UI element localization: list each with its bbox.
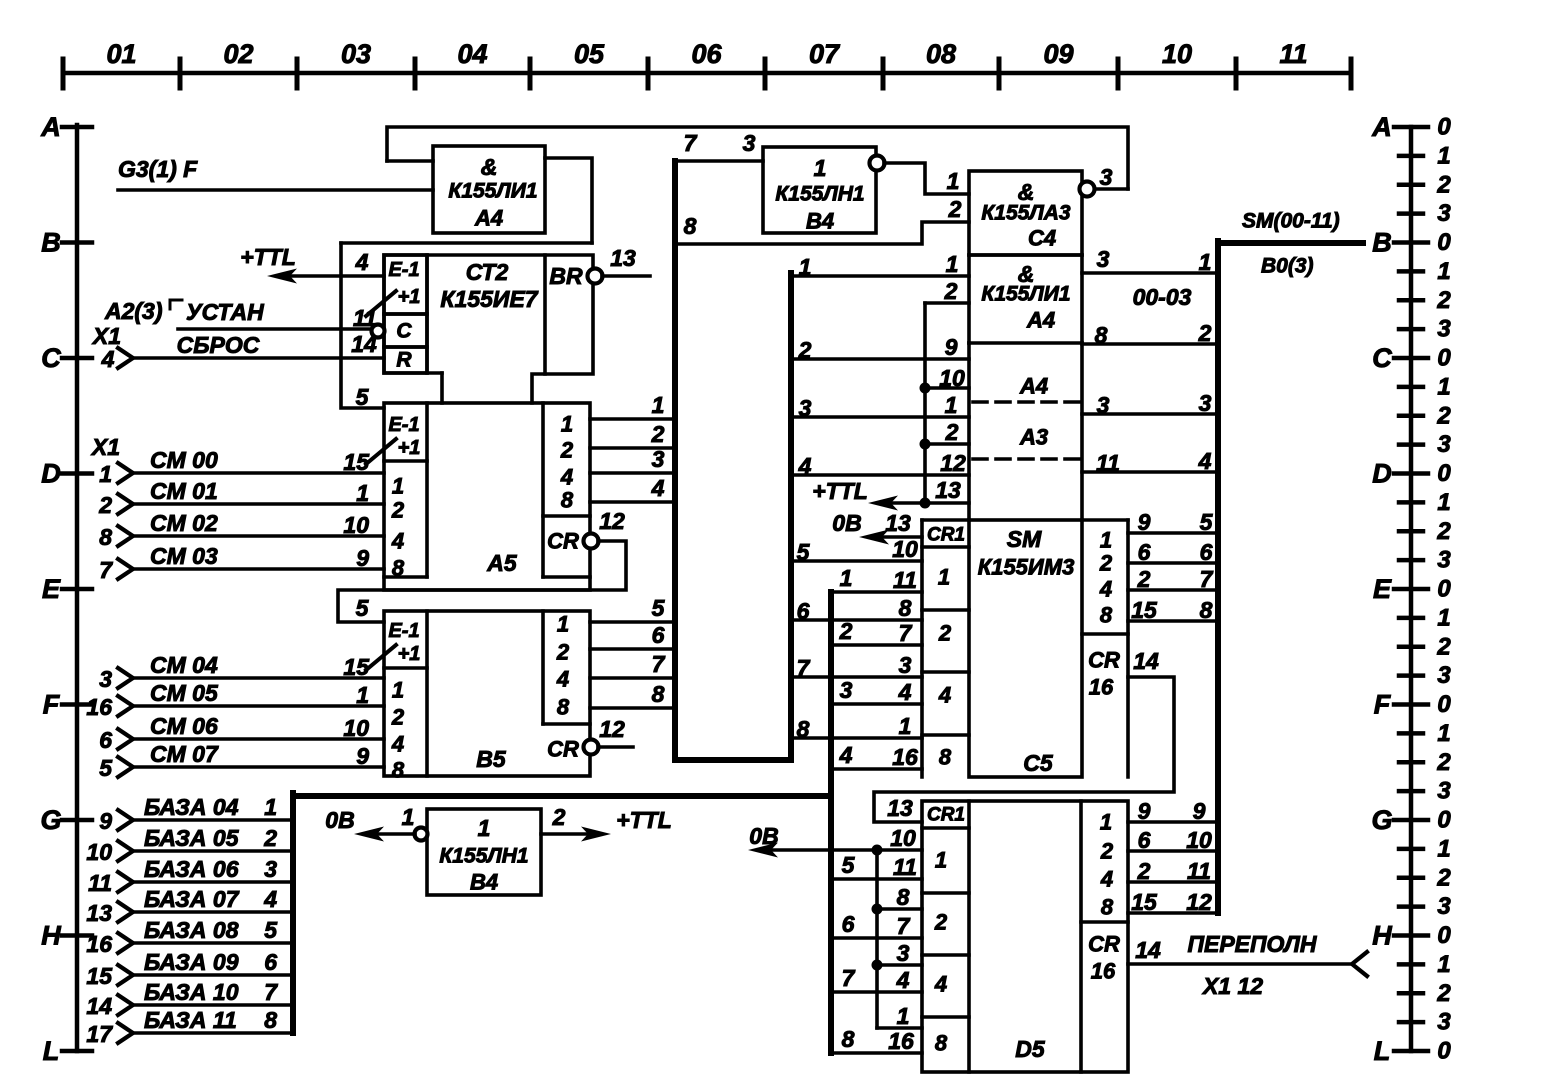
wire comb B row 1 pin 11 (831, 590, 922, 594)
svg-text:12: 12 (1186, 889, 1212, 915)
wire D5 output pin 2 bit 11 (1128, 880, 1215, 884)
svg-text:2: 2 (948, 196, 962, 222)
svg-text:7: 7 (1200, 566, 1214, 592)
svg-text:7: 7 (899, 620, 913, 646)
bus БАЗА horizontal to comb B (293, 793, 831, 799)
svg-text:5: 5 (99, 755, 113, 781)
wire D5 output pin 15 bit 12 (1128, 911, 1215, 915)
svg-text:1: 1 (1437, 489, 1450, 516)
wire СМ 07 (133, 765, 384, 769)
svg-text:13: 13 (610, 245, 636, 271)
wire A5 output bit 3 to bus (590, 471, 675, 475)
svg-text:D5: D5 (1015, 1036, 1046, 1062)
svg-text:BR: BR (549, 263, 583, 289)
svg-text:9: 9 (99, 808, 112, 834)
svg-text:0: 0 (1437, 345, 1451, 372)
junction dot D5 pin8 (872, 904, 883, 915)
adder C5 output column (1082, 518, 1128, 522)
wire СМ 00 (133, 471, 384, 475)
wire СМ 05 (133, 704, 384, 708)
svg-text:14: 14 (1133, 648, 1159, 674)
svg-text:3: 3 (1437, 662, 1451, 689)
svg-text:6: 6 (1200, 539, 1213, 565)
svg-text:2: 2 (938, 621, 952, 646)
svg-text:4: 4 (1100, 867, 1113, 892)
svg-text:11: 11 (1279, 39, 1307, 69)
svg-text:10: 10 (343, 512, 369, 538)
svg-text:3: 3 (1097, 392, 1110, 418)
svg-text:8: 8 (897, 884, 910, 910)
wire БАЗА 09 (133, 973, 293, 977)
svg-text:4: 4 (898, 679, 912, 705)
counter A5 CR box bottom (543, 575, 590, 579)
svg-text:3: 3 (1199, 390, 1212, 416)
left ruler ticks (62, 127, 92, 1051)
svg-text:8: 8 (264, 1007, 277, 1033)
svg-text:8: 8 (557, 695, 570, 720)
svg-text:5: 5 (356, 595, 370, 621)
svg-text:К155ЛА3: К155ЛА3 (981, 202, 1071, 225)
svg-text:1: 1 (392, 678, 404, 703)
svg-text:1: 1 (99, 461, 112, 487)
svg-text:1: 1 (1437, 951, 1450, 978)
counter A5 weight labels (384, 575, 427, 579)
svg-text:0В: 0В (325, 807, 354, 833)
svg-text:1: 1 (1437, 142, 1450, 169)
bus SM(00-11) horizontal (1218, 240, 1363, 246)
svg-text:К155ИЕ7: К155ИЕ7 (440, 286, 538, 312)
svg-text:2: 2 (1436, 864, 1451, 891)
counter B5 E-1 +1 box (384, 666, 427, 670)
adder C5 pin column (920, 520, 924, 777)
wire comb B row 6 to D5 (831, 936, 922, 940)
svg-text:1: 1 (652, 392, 665, 418)
svg-text:1: 1 (945, 392, 958, 418)
svg-text:+1: +1 (398, 643, 421, 665)
adder D5 output column divider (1081, 920, 1128, 924)
wire D5 output pin 6 bit 10 (1128, 849, 1215, 853)
bus SM output vertical (1215, 241, 1221, 913)
svg-text:G: G (40, 805, 61, 835)
svg-text:4: 4 (560, 465, 573, 490)
wire output bit 2 from gate column (1082, 342, 1218, 346)
svg-text:B0(3): B0(3) (1261, 255, 1314, 278)
svg-text:2: 2 (798, 337, 812, 363)
svg-text:CR1: CR1 (927, 525, 965, 546)
svg-text:1: 1 (947, 168, 960, 194)
svg-text:F: F (1374, 690, 1392, 720)
adder D5 pin column boxes (922, 828, 969, 1017)
svg-text:16: 16 (86, 694, 112, 720)
svg-text:2: 2 (391, 705, 405, 730)
svg-text:3: 3 (1097, 246, 1110, 272)
column body sides (967, 343, 971, 520)
comb A spine from bus (788, 273, 794, 760)
svg-text:R: R (396, 349, 412, 372)
svg-text:12: 12 (940, 450, 966, 476)
wire B5 output bit 5 to bus (590, 620, 675, 624)
svg-text:06: 06 (691, 39, 722, 69)
svg-text:5: 5 (842, 852, 856, 878)
comb B spine (828, 592, 834, 1053)
svg-text:К155ЛН1: К155ЛН1 (439, 845, 528, 868)
svg-text:L: L (1374, 1036, 1391, 1066)
wire V2 vertical A4 pin taps (923, 303, 927, 503)
svg-text:3: 3 (1437, 431, 1451, 458)
wire G3(1) F to A4 pin (118, 188, 433, 192)
gate C4 output inversion circle pin 3 (1080, 182, 1095, 197)
svg-text:СМ 03: СМ 03 (150, 543, 218, 569)
svg-text:4: 4 (391, 732, 404, 757)
wire comb B row 4 pin 16 (831, 767, 922, 771)
wire bus tap to gate C4 pin 2 (675, 222, 969, 244)
svg-text:00-03: 00-03 (1133, 284, 1192, 310)
svg-text:2: 2 (1436, 518, 1451, 545)
bus vertical counters to comb A (675, 161, 791, 760)
bus БАЗА collector vertical (290, 793, 296, 1033)
svg-text:13: 13 (885, 510, 911, 536)
svg-text:15: 15 (343, 449, 370, 475)
svg-text:7: 7 (99, 557, 113, 583)
svg-text:X1: X1 (90, 434, 120, 460)
adder D5 outline (922, 801, 1128, 1072)
wire B5 output bit 7 to bus (590, 676, 675, 680)
svg-text:С4: С4 (1028, 226, 1056, 251)
svg-text:6: 6 (652, 622, 665, 648)
svg-text:8: 8 (935, 1031, 948, 1056)
wire comb A row 3 pin 1 (791, 415, 969, 419)
svg-text:11: 11 (1187, 858, 1211, 884)
svg-text:В5: В5 (476, 746, 507, 772)
svg-text:2: 2 (560, 438, 574, 463)
svg-text:1: 1 (938, 565, 950, 590)
svg-text:2: 2 (1100, 839, 1114, 864)
svg-text:+1: +1 (398, 437, 421, 459)
svg-text:1: 1 (1437, 258, 1450, 285)
svg-text:2: 2 (1436, 749, 1451, 776)
svg-text:L: L (43, 1036, 60, 1066)
wire A5 output bit 4 to bus (590, 500, 675, 504)
wire C5 carry CR16 pin 14 loop to D5 CR1 pin 13 (874, 677, 1174, 822)
svg-text:H: H (1372, 921, 1392, 951)
junction dot pin 13 (920, 498, 931, 509)
wire SM top edge over CR1 (922, 518, 969, 522)
svg-text:D: D (41, 459, 61, 489)
wire comb A row 1 pin 1 (791, 274, 969, 278)
svg-text:7: 7 (684, 130, 698, 156)
wire tap D5 pin 1 (877, 1026, 922, 1030)
svg-text:Е-1: Е-1 (388, 620, 419, 642)
svg-text:БАЗА 04: БАЗА 04 (144, 794, 239, 820)
svg-text:УСТАН: УСТАН (186, 299, 264, 325)
svg-text:8: 8 (899, 595, 912, 621)
wire node row B to frame (341, 241, 592, 245)
svg-text:СТ2: СТ2 (466, 259, 509, 285)
wire comb A row 6 pin 8 (791, 618, 922, 622)
gate A4 K155LI1 box (969, 255, 1082, 343)
svg-text:СМ 06: СМ 06 (150, 713, 218, 739)
svg-text:05: 05 (574, 39, 605, 69)
inverter B4 output inversion circle (870, 156, 885, 171)
wire СМ 02 (133, 534, 384, 538)
wire tap D5 pin 3 (877, 963, 922, 967)
svg-text:D: D (1372, 459, 1392, 489)
svg-text:15: 15 (1131, 597, 1158, 623)
svg-text:А4: А4 (1019, 374, 1048, 399)
svg-text:8: 8 (1100, 603, 1113, 628)
svg-text:1: 1 (1437, 373, 1450, 400)
svg-text:CR1: CR1 (927, 805, 965, 826)
wire PEREPOLN D5 CR16 pin 14 (1128, 962, 1352, 966)
svg-text:CR: CR (547, 529, 579, 554)
svg-text:9: 9 (356, 545, 369, 571)
wire bus to inverter B4 input (675, 159, 763, 163)
svg-text:14: 14 (1135, 937, 1161, 963)
wire B4 output +TTL arrow pin 2 (581, 827, 611, 842)
svg-text:5: 5 (652, 595, 666, 621)
wire БАЗА 08 (133, 941, 293, 945)
svg-text:H: H (41, 921, 61, 951)
svg-text:CR: CR (1088, 932, 1120, 957)
svg-text:CR: CR (1088, 648, 1120, 673)
svg-text:B: B (1372, 228, 1392, 258)
svg-text:2: 2 (944, 278, 958, 304)
counter CT2 BR column divider (543, 255, 547, 374)
svg-text:0: 0 (1437, 460, 1451, 487)
wire D5 A-input tie vertical (875, 850, 879, 1028)
svg-text:C: C (1372, 343, 1392, 373)
svg-text:2: 2 (1436, 287, 1451, 314)
svg-text:SM: SM (1007, 526, 1042, 552)
adder SM C5 K155IM3 box (969, 520, 1082, 777)
svg-text:2: 2 (651, 421, 665, 447)
svg-text:К155ИМ3: К155ИМ3 (978, 555, 1075, 580)
svg-text:БАЗА 07: БАЗА 07 (144, 886, 240, 912)
counter B5 CR inversion circle pin 12 (584, 740, 599, 755)
svg-text:К155ЛН1: К155ЛН1 (775, 183, 864, 206)
svg-text:+TTL: +TTL (812, 478, 868, 504)
adder C5 output column divider (1082, 632, 1128, 636)
svg-text:2: 2 (839, 618, 853, 644)
counter A5 +1 slash (366, 439, 396, 464)
svg-text:4: 4 (101, 346, 115, 372)
wire БАЗА 04 (133, 818, 293, 822)
svg-text:6: 6 (99, 727, 112, 753)
svg-text:К155ЛИ1: К155ЛИ1 (981, 283, 1070, 306)
svg-text:2: 2 (1436, 633, 1451, 660)
counter CT2 K155IE7 outline (384, 255, 593, 403)
svg-text:02: 02 (223, 39, 253, 69)
wire D5 output pin 9 bit 9 (1128, 820, 1215, 824)
svg-text:7: 7 (264, 979, 278, 1005)
svg-text:16: 16 (888, 1028, 914, 1054)
counter B5 pin column divider (425, 611, 429, 776)
junction dot D5 pin3 (872, 960, 883, 971)
svg-text:7: 7 (652, 651, 666, 677)
wire tap D5 pin 8 (877, 907, 922, 911)
wire output bit 3 from gate column (1082, 412, 1218, 416)
svg-text:4: 4 (651, 475, 665, 501)
svg-text:СМ 04: СМ 04 (150, 652, 218, 678)
svg-text:СБРОС: СБРОС (177, 332, 260, 358)
counter A5 E-1 +1 box (384, 459, 427, 463)
svg-text:10: 10 (892, 536, 918, 562)
svg-text:2: 2 (1436, 171, 1451, 198)
svg-text:9: 9 (945, 334, 958, 360)
svg-text:9: 9 (1193, 798, 1206, 824)
counter CT2 +1 slash (366, 291, 396, 316)
svg-text:В4: В4 (806, 209, 834, 234)
svg-text:А4: А4 (474, 206, 503, 231)
wire comb A row 5 pin 10 (791, 559, 922, 563)
wire B5 CR stub (598, 745, 633, 749)
gate C4 K155LA3 box (969, 171, 1082, 255)
svg-text:С5: С5 (1023, 750, 1054, 776)
svg-text:1: 1 (946, 251, 959, 277)
wire comb A row 4 pin 12 (791, 473, 969, 477)
counter CT2 R box (384, 347, 427, 373)
svg-text:2: 2 (1198, 320, 1212, 346)
svg-text:8: 8 (842, 1026, 855, 1052)
svg-text:2: 2 (1137, 566, 1151, 592)
right ruler ticks (1394, 127, 1428, 1051)
left ruler line (75, 125, 80, 1051)
svg-text:А4: А4 (1026, 308, 1055, 333)
svg-text:B: B (41, 228, 61, 258)
svg-text:3: 3 (799, 395, 812, 421)
wire C5 output pin 9 bit 5 (1128, 531, 1215, 535)
svg-text:8: 8 (99, 524, 112, 550)
svg-text:3: 3 (1437, 893, 1451, 920)
svg-text:БАЗА 09: БАЗА 09 (144, 949, 239, 975)
svg-text:6: 6 (842, 911, 855, 937)
svg-text:3: 3 (264, 856, 277, 882)
wire СБРОС to CT2 pin 14 (133, 356, 384, 360)
svg-text:15: 15 (86, 963, 113, 989)
svg-text:СМ 05: СМ 05 (150, 680, 219, 706)
svg-text:БАЗА 05: БАЗА 05 (144, 825, 240, 851)
svg-text:13: 13 (86, 900, 112, 926)
svg-text:0: 0 (1437, 576, 1451, 603)
svg-text:1: 1 (1437, 835, 1450, 862)
svg-text:3: 3 (1437, 547, 1451, 574)
svg-text:+1: +1 (398, 286, 421, 308)
wire C5 output pin 6 bit 6 (1128, 561, 1215, 565)
counter A5 output column (541, 403, 545, 577)
counter CT2 pin column divider (425, 255, 429, 373)
svg-text:4: 4 (355, 249, 369, 275)
wire БАЗА 11 (133, 1031, 293, 1035)
junction dot pin 2 (920, 439, 931, 450)
svg-text:Е-1: Е-1 (388, 259, 419, 281)
counter CT2 C box (384, 314, 427, 347)
svg-text:2: 2 (556, 640, 570, 665)
svg-text:5: 5 (1200, 509, 1214, 535)
wire A5 output bit 1 to bus (590, 417, 675, 421)
svg-text:4: 4 (391, 529, 404, 554)
wire A4 input 1 (387, 159, 433, 163)
svg-text:4: 4 (1099, 577, 1112, 602)
svg-text:11: 11 (1096, 450, 1120, 476)
counter B5 +1 slash (366, 645, 396, 670)
svg-text:2: 2 (98, 492, 112, 518)
svg-text:10: 10 (86, 839, 112, 865)
svg-text:03: 03 (341, 39, 371, 69)
svg-text:2: 2 (1099, 551, 1113, 576)
svg-text:0: 0 (1437, 922, 1451, 949)
svg-text:08: 08 (926, 39, 956, 69)
svg-text:8: 8 (684, 213, 697, 239)
svg-text:7: 7 (897, 913, 911, 939)
svg-text:SM(00-11): SM(00-11) (1242, 210, 1340, 233)
inverter B4 bottom (427, 809, 541, 895)
svg-text:11: 11 (893, 854, 917, 880)
counter CT2 E-1 +1 box (384, 255, 427, 314)
wire B4 output to C4 pin 1 (884, 163, 969, 194)
svg-text:10: 10 (1162, 39, 1192, 69)
wire B5 output bit 8 to bus (590, 706, 675, 710)
svg-text:11: 11 (893, 567, 917, 593)
wire БАЗА 07 (133, 910, 293, 914)
svg-text:1: 1 (561, 412, 573, 437)
wire БАЗА 05 (133, 849, 293, 853)
svg-text:7: 7 (842, 965, 856, 991)
svg-text:4: 4 (934, 972, 947, 997)
svg-text:X1 12: X1 12 (1201, 973, 1263, 999)
wire БАЗА 06 (133, 880, 293, 884)
counter A5 pin column divider (425, 403, 429, 577)
svg-text:10: 10 (1186, 827, 1212, 853)
svg-text:8: 8 (392, 758, 405, 783)
wire left frame down to A5 E-1 (341, 243, 384, 408)
wire tap pin 2 top (925, 301, 969, 305)
svg-text:1: 1 (478, 815, 491, 841)
svg-text:3: 3 (1100, 164, 1113, 190)
wire comb B row 8 to D5 (831, 1051, 922, 1055)
svg-text:3: 3 (652, 446, 665, 472)
svg-text:13: 13 (887, 795, 913, 821)
svg-text:1: 1 (899, 713, 912, 739)
inverter B4 input inversion circle pin 1 (415, 828, 428, 841)
wire СМ 06 (133, 737, 384, 741)
svg-text:2: 2 (945, 419, 959, 445)
svg-text:9: 9 (356, 743, 369, 769)
svg-text:16: 16 (892, 744, 918, 770)
svg-text:A: A (1371, 112, 1392, 142)
svg-text:3: 3 (840, 677, 853, 703)
svg-text:8: 8 (392, 556, 405, 581)
wire A4 output loop to node (545, 158, 592, 243)
svg-text:10: 10 (939, 365, 965, 391)
svg-text:5: 5 (356, 384, 370, 410)
svg-text:БАЗА 10: БАЗА 10 (144, 979, 239, 1005)
svg-text:14: 14 (86, 993, 112, 1019)
svg-text:0: 0 (1437, 229, 1451, 256)
svg-text:4: 4 (556, 667, 569, 692)
wire tap pin 13 to column (925, 501, 969, 505)
svg-text:1: 1 (392, 474, 404, 499)
svg-text:СМ 02: СМ 02 (150, 510, 218, 536)
svg-text:10: 10 (343, 715, 369, 741)
svg-text:10: 10 (890, 825, 916, 851)
svg-text:6: 6 (1138, 827, 1151, 853)
svg-text:К155ЛИ1: К155ЛИ1 (448, 180, 537, 203)
svg-text:1: 1 (799, 254, 812, 280)
counter B5 outline (384, 611, 590, 776)
right ruler line (1409, 127, 1414, 1051)
svg-text:12: 12 (599, 508, 625, 534)
svg-text:F: F (43, 690, 61, 720)
